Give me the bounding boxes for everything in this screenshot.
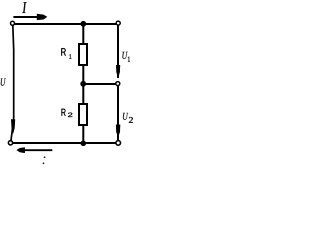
current arrow (bottom return) (16, 147, 52, 153)
wire: right conductor lower (U2 arrow shaft) (117, 86, 119, 140)
junction: middle node (80, 81, 86, 87)
label R1 (61, 48, 71, 58)
node: top-left terminal (11, 21, 15, 25)
wire: bottom conductor (13, 142, 116, 144)
resistor R1 (79, 44, 87, 65)
node: top-right terminal (116, 21, 120, 25)
label: faint dots below return arrow (43, 156, 46, 164)
wire: branch top segment (82, 24, 84, 44)
voltage arrow U2 head (116, 125, 120, 138)
current arrow I (top) (13, 14, 47, 20)
wire: left conductor (11, 25, 14, 141)
voltage arrow U1 head (116, 65, 120, 79)
label I (22, 2, 26, 13)
voltage arrow U head (left) (11, 119, 15, 134)
wire: top conductor (13, 23, 117, 25)
label U (1, 78, 6, 85)
wire: right conductor upper (U1 arrow shaft) (117, 26, 119, 79)
label U2 (123, 113, 133, 123)
node: bottom-left terminal (8, 141, 12, 145)
resistor R2 (79, 104, 87, 125)
label R2 (62, 109, 73, 117)
node: middle-right terminal (116, 82, 120, 86)
node: bottom-right terminal (116, 141, 121, 146)
wire: middle conductor (84, 83, 116, 85)
junction: top node (80, 21, 86, 27)
label U1 (122, 52, 130, 62)
junction: bottom node (81, 141, 87, 147)
wire: branch middle segment (82, 65, 84, 104)
wire: branch bottom segment (82, 125, 84, 142)
